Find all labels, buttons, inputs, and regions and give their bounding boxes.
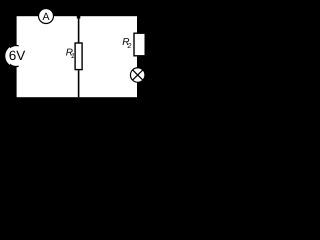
- svg-text:1: 1: [71, 53, 75, 60]
- svg-text:6V: 6V: [9, 48, 26, 63]
- svg-text:2: 2: [127, 43, 132, 50]
- svg-text:A: A: [43, 11, 50, 23]
